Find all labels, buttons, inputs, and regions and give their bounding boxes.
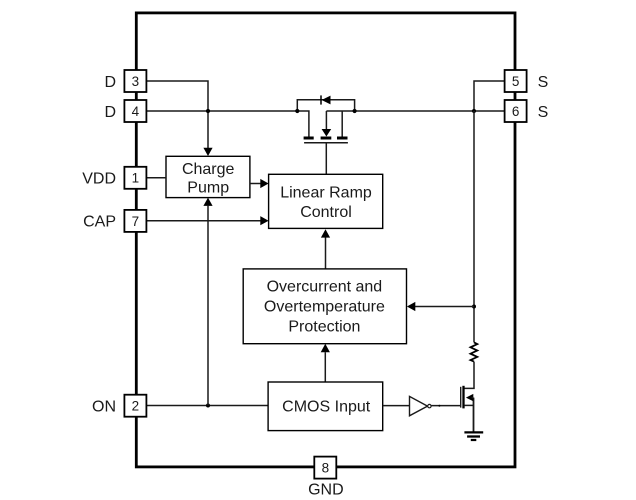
junction dot at D rail / charge-pump line (206, 109, 210, 113)
junction dot power FET right node (353, 109, 357, 113)
pin 2 label ON (92, 398, 116, 415)
svg-text:2: 2 (132, 399, 140, 414)
wire: power FET right terminal drop (341, 111, 343, 137)
arrowhead into Overcurrent block bottom (321, 344, 330, 353)
svg-text:S: S (538, 104, 549, 121)
wire: inverter to Q1 gate (431, 405, 461, 407)
arrowhead into Linear Ramp Control left (from CAP) (260, 216, 268, 225)
pin 8 box (314, 457, 336, 479)
power MOSFET M1 body-diode bypass wire (297, 100, 354, 111)
junction dot ON line (206, 404, 210, 408)
pin 3 label D (104, 74, 116, 91)
pin 5 label S (538, 74, 549, 91)
power MOSFET M1 channel contact bars (304, 137, 348, 140)
svg-text:Overcurrent and: Overcurrent and (267, 279, 383, 296)
wire: CMOS Input to inverter (383, 405, 410, 407)
pin 4 box (124, 100, 146, 122)
svg-text:Charge: Charge (182, 161, 235, 178)
transistor Q1 source lead (464, 398, 473, 432)
arrowhead into Charge Pump bottom (203, 198, 212, 206)
wire: pin3 D to charge-pump vertical (146, 81, 208, 148)
pin 1 label VDD (82, 171, 116, 188)
pin 7 box (124, 210, 146, 232)
junction dot sense tap (472, 305, 476, 309)
transistor Q1 gate bar (460, 387, 462, 408)
svg-text:CAP: CAP (83, 214, 116, 231)
svg-text:Overtemperature: Overtemperature (264, 299, 385, 316)
wire: VDD pin to Charge Pump (146, 177, 166, 179)
IC boundary (136, 13, 515, 467)
wire: Charge Pump to Linear Ramp Control (250, 183, 261, 185)
block: Overcurrent and Overtemperature Protection (243, 269, 406, 344)
wire: ON junction up to Charge Pump (207, 206, 209, 406)
pin 1 box (124, 167, 146, 189)
power MOSFET M1 gate line (304, 142, 348, 144)
wire: Overcurrent block to Linear Ramp Control (325, 238, 327, 269)
junction dot S rail (472, 109, 476, 113)
wire: sense tap to protection block (415, 306, 474, 308)
pin 2 box (124, 395, 146, 417)
svg-text:VDD: VDD (82, 171, 116, 188)
arrowhead into Overcurrent block right (407, 302, 415, 311)
block: CMOS Input (268, 382, 383, 431)
pin 6 box (505, 100, 527, 122)
wire: CMOS Input to Overcurrent block (324, 352, 326, 382)
svg-text:CMOS Input: CMOS Input (282, 398, 371, 415)
wire: S vertical to resistor (473, 111, 475, 342)
svg-text:6: 6 (512, 104, 520, 119)
svg-text:Pump: Pump (187, 180, 229, 197)
pin 4 label D (104, 104, 116, 121)
svg-text:7: 7 (132, 214, 140, 229)
transistor Q1 body arrow (466, 394, 474, 401)
svg-text:D: D (104, 104, 116, 121)
power MOSFET M1 body arrow (322, 111, 332, 137)
wire: main D rail right segment (power FET right to pin6) (326, 110, 504, 112)
pin 8 label GND (308, 482, 344, 499)
svg-text:S: S (538, 74, 549, 91)
svg-text:Protection: Protection (288, 318, 360, 335)
svg-text:Linear Ramp: Linear Ramp (280, 185, 372, 202)
pin 5 box (505, 70, 527, 92)
svg-text:8: 8 (322, 461, 330, 476)
wire: resistor to Q1 drain (464, 362, 474, 389)
svg-text:1: 1 (132, 171, 140, 186)
inverter U1 (410, 396, 432, 415)
svg-text:GND: GND (308, 482, 344, 499)
resistor R1 (471, 342, 478, 361)
wire: gate to Linear Ramp Control (325, 143, 327, 175)
arrowhead into Linear Ramp Control left (from Charge Pump) (260, 179, 268, 188)
svg-text:5: 5 (512, 74, 520, 89)
pin 7 label CAP (83, 214, 116, 231)
arrowhead into Linear Ramp Control bottom (321, 229, 330, 237)
wire: pin5 S branch (474, 81, 505, 111)
junction dot on inverter output wire (438, 405, 440, 407)
svg-text:D: D (104, 74, 116, 91)
svg-text:ON: ON (92, 398, 116, 415)
pin 6 label S (538, 104, 549, 121)
wire: ON pin to CMOS Input (146, 405, 268, 407)
ground (464, 432, 483, 440)
svg-text:3: 3 (132, 74, 140, 89)
transistor Q1 channel bar (462, 386, 464, 409)
svg-text:Control: Control (300, 204, 352, 221)
wire: CAP pin to Linear Ramp Control (146, 220, 260, 222)
junction dot power FET left node (295, 109, 299, 113)
arrowhead into Charge Pump top (203, 148, 212, 156)
svg-text:4: 4 (132, 104, 140, 119)
body diode D1 (321, 95, 331, 104)
pin 3 box (124, 70, 146, 92)
wire: main D rail left segment (pin4 to power FET left) (146, 111, 309, 137)
block: Charge Pump (166, 156, 250, 197)
block: Linear Ramp Control (269, 174, 383, 228)
